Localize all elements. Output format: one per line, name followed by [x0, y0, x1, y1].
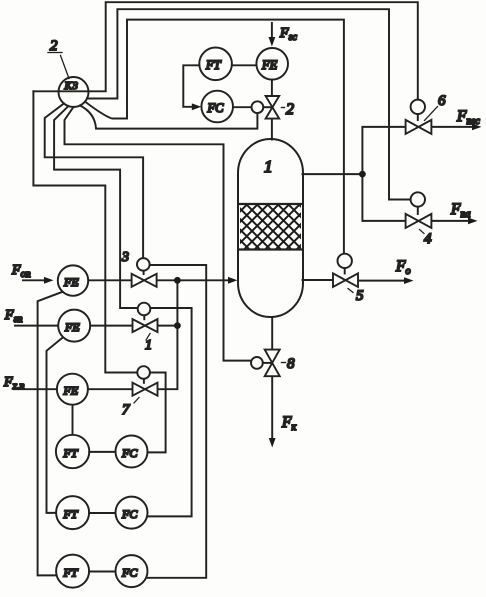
svg-text:4: 4 [424, 231, 432, 247]
svg-text:Fпа: Fпа [450, 201, 470, 220]
valve 7 actuator circle [137, 366, 150, 379]
instrument FT row C [56, 555, 89, 588]
pipe: vessel right outlet to valve 5 (F_o) [303, 279, 334, 281]
valve lambda actuator circle [138, 303, 151, 316]
wire: top signal wire 2 (KS to valve 4) [87, 9, 411, 199]
F_gs arrow into FE top [271, 23, 273, 38]
svg-text:6: 6 [438, 93, 446, 109]
wire: FE row2 to FT row2 (left vertical) [47, 337, 64, 513]
vessel packing crosshatch band [240, 204, 301, 250]
instrument FC (top) [201, 91, 233, 123]
svg-text:Fх.п: Fх.п [3, 375, 25, 392]
svg-text:FT: FT [63, 446, 79, 460]
instrument FT row A [56, 435, 89, 468]
valve 4 actuator circle [411, 192, 425, 206]
instrument FT row B [56, 496, 89, 529]
svg-text:FT: FT [205, 58, 222, 72]
svg-text:FC: FC [207, 101, 225, 115]
svg-text:Fк: Fк [281, 414, 296, 433]
controller KS circle (drawn under its wires) [59, 77, 89, 107]
wire: KS left loop to valve 7 actuator line, then to FC row1 riser [33, 91, 165, 452]
wire FT-FC row C [89, 571, 115, 573]
svg-text:Fо: Fо [395, 258, 410, 277]
junction dot row2 [174, 322, 181, 329]
valve 5 actuator circle [338, 254, 352, 268]
wire: KS fan line to valve 8 actuator [65, 107, 252, 361]
valve 6 actuator circle [411, 100, 425, 114]
svg-text:1: 1 [264, 157, 273, 176]
wire FT-FC row A [89, 451, 115, 453]
svg-text:FC: FC [121, 507, 138, 521]
valve 8 actuator circle [251, 357, 263, 369]
valve 4 (bowtie) [406, 214, 432, 228]
wire: KS fan line to valve 2 actuator [80, 106, 257, 129]
svg-text:8: 8 [287, 356, 295, 372]
pipe: F_pa outlet after valve 4 [431, 220, 469, 222]
svg-text:FE: FE [63, 384, 79, 398]
svg-text:FC: FC [121, 446, 138, 460]
arrowhead feed row1 [44, 277, 54, 284]
valve 2 actuator circle [252, 101, 264, 113]
valve 3 (bowtie) [132, 274, 157, 287]
svg-text:Fгс: Fгс [279, 26, 297, 43]
svg-text:Fгп: Fгп [4, 308, 22, 325]
wire FT-FC row B [89, 512, 115, 514]
wire: KS fan line to valve lambda actuator line, then to FC row2 riser [54, 106, 192, 516]
label 8 with leader dash [282, 362, 286, 364]
wire: valve 3 actuator output to FC row3 riser [146, 265, 206, 578]
svg-text:5: 5 [356, 288, 364, 304]
pipe: vessel bottom outlet to valve 8 [271, 318, 273, 350]
svg-text:FE: FE [261, 58, 278, 72]
svg-text:7: 7 [122, 402, 131, 418]
wire: top signal wire 3 (KS to valve 5) [85, 20, 344, 254]
arrowhead into vessel [228, 277, 237, 284]
svg-text:FT: FT [63, 566, 79, 580]
pipe: manifold joining the three feed rows [158, 280, 178, 389]
pipe: vessel right outlet to valve 6 / valve 4 manifold [303, 127, 406, 221]
wire FC to valve 2 actuator [233, 106, 252, 108]
instrument FT (top) [199, 48, 232, 81]
wire FT to FE [232, 64, 257, 66]
svg-text:Fпгс: Fпгс [456, 108, 480, 127]
junction dot on right manifold [359, 171, 366, 178]
instrument FE row 1 [58, 265, 88, 295]
vessel 1 shell [238, 139, 303, 317]
svg-text:2: 2 [50, 38, 58, 54]
wire FT loop down to FC with arrow [183, 65, 199, 107]
valve 7 (bowtie) [133, 383, 158, 396]
valve (row2, bowtie) [133, 319, 158, 332]
svg-text:FE: FE [63, 275, 79, 289]
pipe: feed line row 3 (F_hp) [14, 388, 133, 390]
svg-text:1: 1 [145, 338, 152, 353]
pipe: feed line row 2 (F_gp) [15, 325, 133, 327]
svg-text:2: 2 [286, 101, 294, 118]
instrument FE row 3 [57, 374, 88, 405]
arrowhead F_o [404, 277, 414, 284]
valve 8 (vertical bowtie) [265, 350, 280, 377]
valve 5 (bowtie) [333, 273, 358, 287]
label 5 with leader dash [348, 289, 353, 293]
pipe: vessel top inlet from valve 2 [271, 119, 273, 140]
valve 2 (vertical bowtie) [266, 96, 280, 119]
junction dot row1 [174, 277, 181, 284]
instrument FC row B [116, 497, 148, 529]
wire: top signal wire 1 (KS to valve 6) [33, 2, 417, 99]
svg-text:FE: FE [64, 320, 80, 334]
pipe: bottoms line F_k below valve 8 [271, 376, 273, 439]
valve 6 (bowtie) [406, 120, 432, 134]
svg-text:КЗ: КЗ [64, 80, 79, 92]
svg-text:FC: FC [121, 566, 138, 580]
pipe: feed line row 1 (F_op) into vessel [23, 279, 45, 281]
svg-text:Fоп: Fоп [11, 263, 31, 280]
instrument FE (top, gas feed) [256, 48, 288, 80]
instrument FE row 2 [58, 310, 90, 342]
label 2 with leader dash [282, 107, 285, 109]
pipe: F_pgs outlet after valve 6 [431, 126, 473, 128]
label 7 with leader dash [134, 398, 139, 404]
wire: FE row1 to FT row3 (left vertical) [38, 292, 63, 576]
label row2 valve with leader dash [146, 334, 150, 341]
label 6 with leader [425, 107, 438, 121]
wire: FE row3 to FT row1 (short vertical) [72, 405, 74, 436]
svg-text:3: 3 [121, 250, 129, 265]
wire: KS fan line to valve 3 actuator (enters circle top) [45, 104, 143, 259]
svg-text:FT: FT [63, 507, 79, 521]
valve 3 actuator circle [137, 258, 150, 271]
label 4 with leader dash [420, 230, 425, 234]
pipe: FE to valve 2 [271, 80, 273, 96]
instrument FC row A [116, 436, 148, 468]
instrument FC row C [116, 555, 148, 587]
